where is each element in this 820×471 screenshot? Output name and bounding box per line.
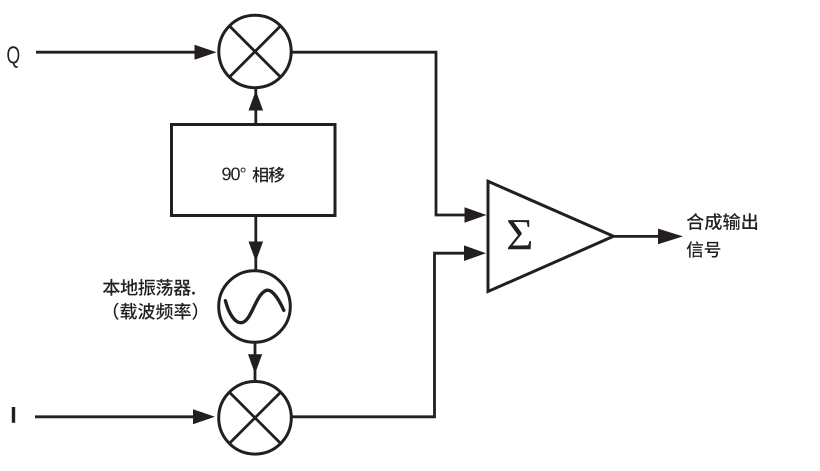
wire box to M1 — [254, 89, 257, 125]
arrowhead down into M2 — [248, 354, 262, 374]
arrowhead into mixer M2 — [193, 409, 215, 424]
local oscillator LO (circle with sine) — [219, 271, 291, 343]
wire LO to M2 — [254, 342, 257, 381]
wire M1 to summer (right, down, right) — [291, 52, 465, 215]
mixer M2 — [219, 382, 292, 455]
input label I — [12, 407, 15, 423]
arrowhead output — [658, 229, 683, 245]
label composite output line 1 — [687, 213, 757, 230]
arrowhead up into M1 — [249, 91, 264, 111]
wire M2 to summer (right, up, right) — [291, 253, 464, 417]
wire summer output — [614, 235, 660, 238]
input label Q — [7, 46, 19, 68]
wire Q input — [36, 51, 196, 54]
label 90deg — [222, 168, 245, 181]
wire box to oscillator — [254, 216, 257, 272]
sigma symbol — [508, 220, 531, 249]
block: 90 degree phase shifter — [172, 125, 336, 216]
label signal line 2 — [687, 241, 721, 257]
label carrier frequency line 2 — [114, 303, 197, 320]
arrowhead into mixer M1 — [195, 45, 217, 60]
summer U1 (sigma amplifier triangle) — [488, 181, 614, 291]
label xiangyi (phase shift) — [253, 167, 285, 183]
label local oscillator line 1 — [103, 279, 195, 296]
arrowhead into summer top input — [465, 207, 487, 223]
arrowhead into summer bottom input — [464, 245, 486, 261]
arrowhead down into oscillator — [249, 242, 264, 262]
mixer M1 — [219, 15, 291, 87]
wire I input — [35, 415, 194, 418]
